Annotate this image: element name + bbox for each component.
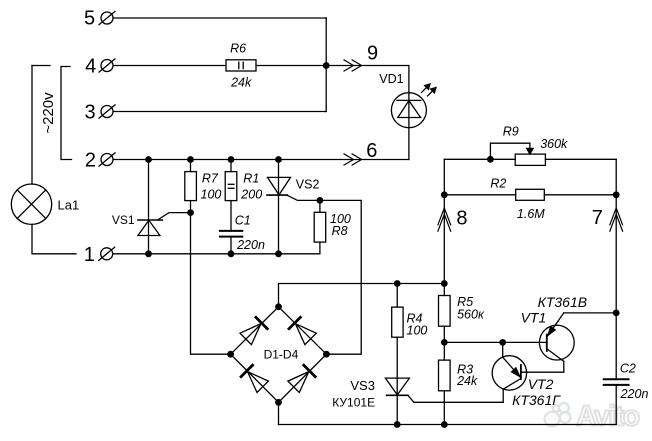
wire R8 top to junction xyxy=(319,200,321,212)
wire line 2 / 6 xyxy=(114,159,409,161)
bracket 220v xyxy=(61,67,72,160)
svg-text:VS2: VS2 xyxy=(296,178,320,192)
svg-text:КУ101Е: КУ101Е xyxy=(332,396,375,410)
wire R5 to R3 xyxy=(443,326,445,360)
svg-text:560к: 560к xyxy=(457,307,485,321)
thyristor VS1 xyxy=(138,213,191,236)
wire right rail upper xyxy=(615,159,617,379)
wire R9 line right xyxy=(545,158,616,160)
wire VT1 collector to VT2 base xyxy=(521,361,564,372)
svg-text:КТ361В: КТ361В xyxy=(538,294,588,310)
wire right rail lower (C2 to rail) xyxy=(615,385,617,425)
wire R6 to VD1 top xyxy=(256,66,409,160)
bridge D1-D4 outline xyxy=(231,307,327,403)
svg-text:3: 3 xyxy=(84,102,95,124)
svg-text:24k: 24k xyxy=(230,75,252,89)
svg-text:220n: 220n xyxy=(620,387,649,401)
wire R9 line left xyxy=(444,158,515,160)
VD1 light arrows xyxy=(422,84,437,96)
svg-text:~220v: ~220v xyxy=(40,92,57,134)
potentiometer R9 xyxy=(490,143,545,165)
resistor R2 xyxy=(516,189,545,200)
svg-text:La1: La1 xyxy=(58,198,80,213)
left outer lead top stub xyxy=(32,65,50,67)
wire line 4 to R6 xyxy=(114,65,227,67)
resistor R6 xyxy=(226,60,256,71)
svg-text:D1-D4: D1-D4 xyxy=(264,348,299,362)
svg-text:7: 7 xyxy=(592,207,603,229)
svg-text:9: 9 xyxy=(367,43,378,65)
svg-text:200: 200 xyxy=(240,188,262,202)
connector arrow 8 xyxy=(438,208,451,231)
wire VT2 collector down xyxy=(502,389,504,402)
connector arrow 6 xyxy=(344,154,362,165)
wire R4 to VS3 to rail xyxy=(396,337,398,424)
LED VD1 xyxy=(391,93,426,128)
svg-text:100: 100 xyxy=(407,324,428,338)
wire R2 line left xyxy=(444,194,515,196)
connector arrow 9 xyxy=(344,60,362,71)
wire VS3 gate line xyxy=(408,395,503,402)
lamp bottom lead to line1 xyxy=(32,224,76,253)
terminal 2 circle xyxy=(99,153,115,166)
svg-text:1.6M: 1.6M xyxy=(517,207,545,221)
lamp La1 xyxy=(11,184,51,224)
terminal 4 circle xyxy=(99,59,115,72)
wire line 3 xyxy=(114,111,327,113)
resistor R4 xyxy=(392,307,403,337)
terminal 3 circle xyxy=(99,105,115,118)
thyristor VS3 xyxy=(385,378,409,395)
wire gate node down to bridge left corner xyxy=(191,213,231,355)
left outer lead to lamp xyxy=(31,66,33,185)
bridge diode bottom-left xyxy=(241,365,268,392)
transistor VT2 xyxy=(492,356,526,390)
svg-text:100: 100 xyxy=(201,188,222,202)
svg-text:6: 6 xyxy=(366,140,377,162)
resistor R8 xyxy=(314,212,326,242)
terminal 5 circle xyxy=(99,11,115,24)
svg-text:220n: 220n xyxy=(236,238,265,252)
wire bottom rail xyxy=(279,424,617,426)
wire R2 line right xyxy=(544,194,616,196)
svg-text:R6: R6 xyxy=(230,42,246,56)
capacitor C1 xyxy=(220,231,242,237)
svg-text:4: 4 xyxy=(85,56,96,78)
svg-text:VD1: VD1 xyxy=(379,72,403,86)
wire R1 top lead xyxy=(230,160,232,172)
wire node line y283 xyxy=(279,283,445,285)
svg-text:5: 5 xyxy=(84,8,95,30)
wire vertical joining terminals 5,4,3 xyxy=(325,18,327,112)
wire terminal 8 riser xyxy=(443,159,445,295)
wire transistor base line xyxy=(444,341,547,343)
svg-text:R1: R1 xyxy=(243,172,259,186)
resistor R3 xyxy=(439,360,451,391)
svg-text:R8: R8 xyxy=(332,224,348,238)
wire R1 to C1 xyxy=(230,201,232,231)
svg-text:24k: 24k xyxy=(456,374,478,388)
wire R7 bottom to gate node xyxy=(190,201,192,213)
thyristor VS2 xyxy=(267,177,320,200)
wire VS2 branch xyxy=(278,160,280,254)
connector arrow 7 xyxy=(610,208,623,231)
svg-text:C2: C2 xyxy=(620,362,636,376)
svg-text:VT1: VT1 xyxy=(521,310,547,326)
terminal 1 circle xyxy=(99,247,115,260)
resistor R1 xyxy=(225,172,237,201)
svg-text:R2: R2 xyxy=(490,176,506,190)
svg-text:VS1: VS1 xyxy=(112,213,135,227)
bridge diode bottom-right xyxy=(288,365,315,392)
wire VT1 emitter horizontal xyxy=(564,312,616,314)
wire line 1 xyxy=(113,242,320,254)
svg-text:Avito: Avito xyxy=(576,401,640,433)
wire C1 to line 1 xyxy=(230,237,232,254)
svg-text:R7: R7 xyxy=(202,172,219,186)
wire R4 top lead xyxy=(396,284,398,308)
svg-text:1: 1 xyxy=(84,244,95,266)
svg-text:360k: 360k xyxy=(540,137,568,151)
wire R7 top lead xyxy=(190,160,192,172)
svg-text:2: 2 xyxy=(85,149,96,171)
wire VS1 branch xyxy=(148,160,150,254)
svg-text:C1: C1 xyxy=(235,213,251,227)
wire R8 junction to bridge right corner xyxy=(320,200,361,354)
capacitor C2 xyxy=(604,379,629,385)
wire VT2 emitter vertical xyxy=(502,342,504,357)
svg-text:VS3: VS3 xyxy=(350,378,375,393)
wire R3 to rail xyxy=(443,391,445,425)
svg-text:8: 8 xyxy=(456,208,467,230)
svg-text:VT2: VT2 xyxy=(528,376,554,392)
wire line 5 xyxy=(114,17,327,19)
resistor R5 xyxy=(439,296,451,327)
wire bridge bottom to rail xyxy=(278,402,280,424)
wire bridge top corner riser xyxy=(278,284,280,307)
svg-text:КТ361Г: КТ361Г xyxy=(512,392,561,408)
bridge diode top-right xyxy=(289,317,316,344)
transistor VT1 xyxy=(539,313,574,362)
resistor R7 xyxy=(185,172,197,201)
bridge diode top-left xyxy=(240,317,267,344)
watermark Avito logo xyxy=(545,403,571,427)
svg-text:R9: R9 xyxy=(503,125,519,139)
